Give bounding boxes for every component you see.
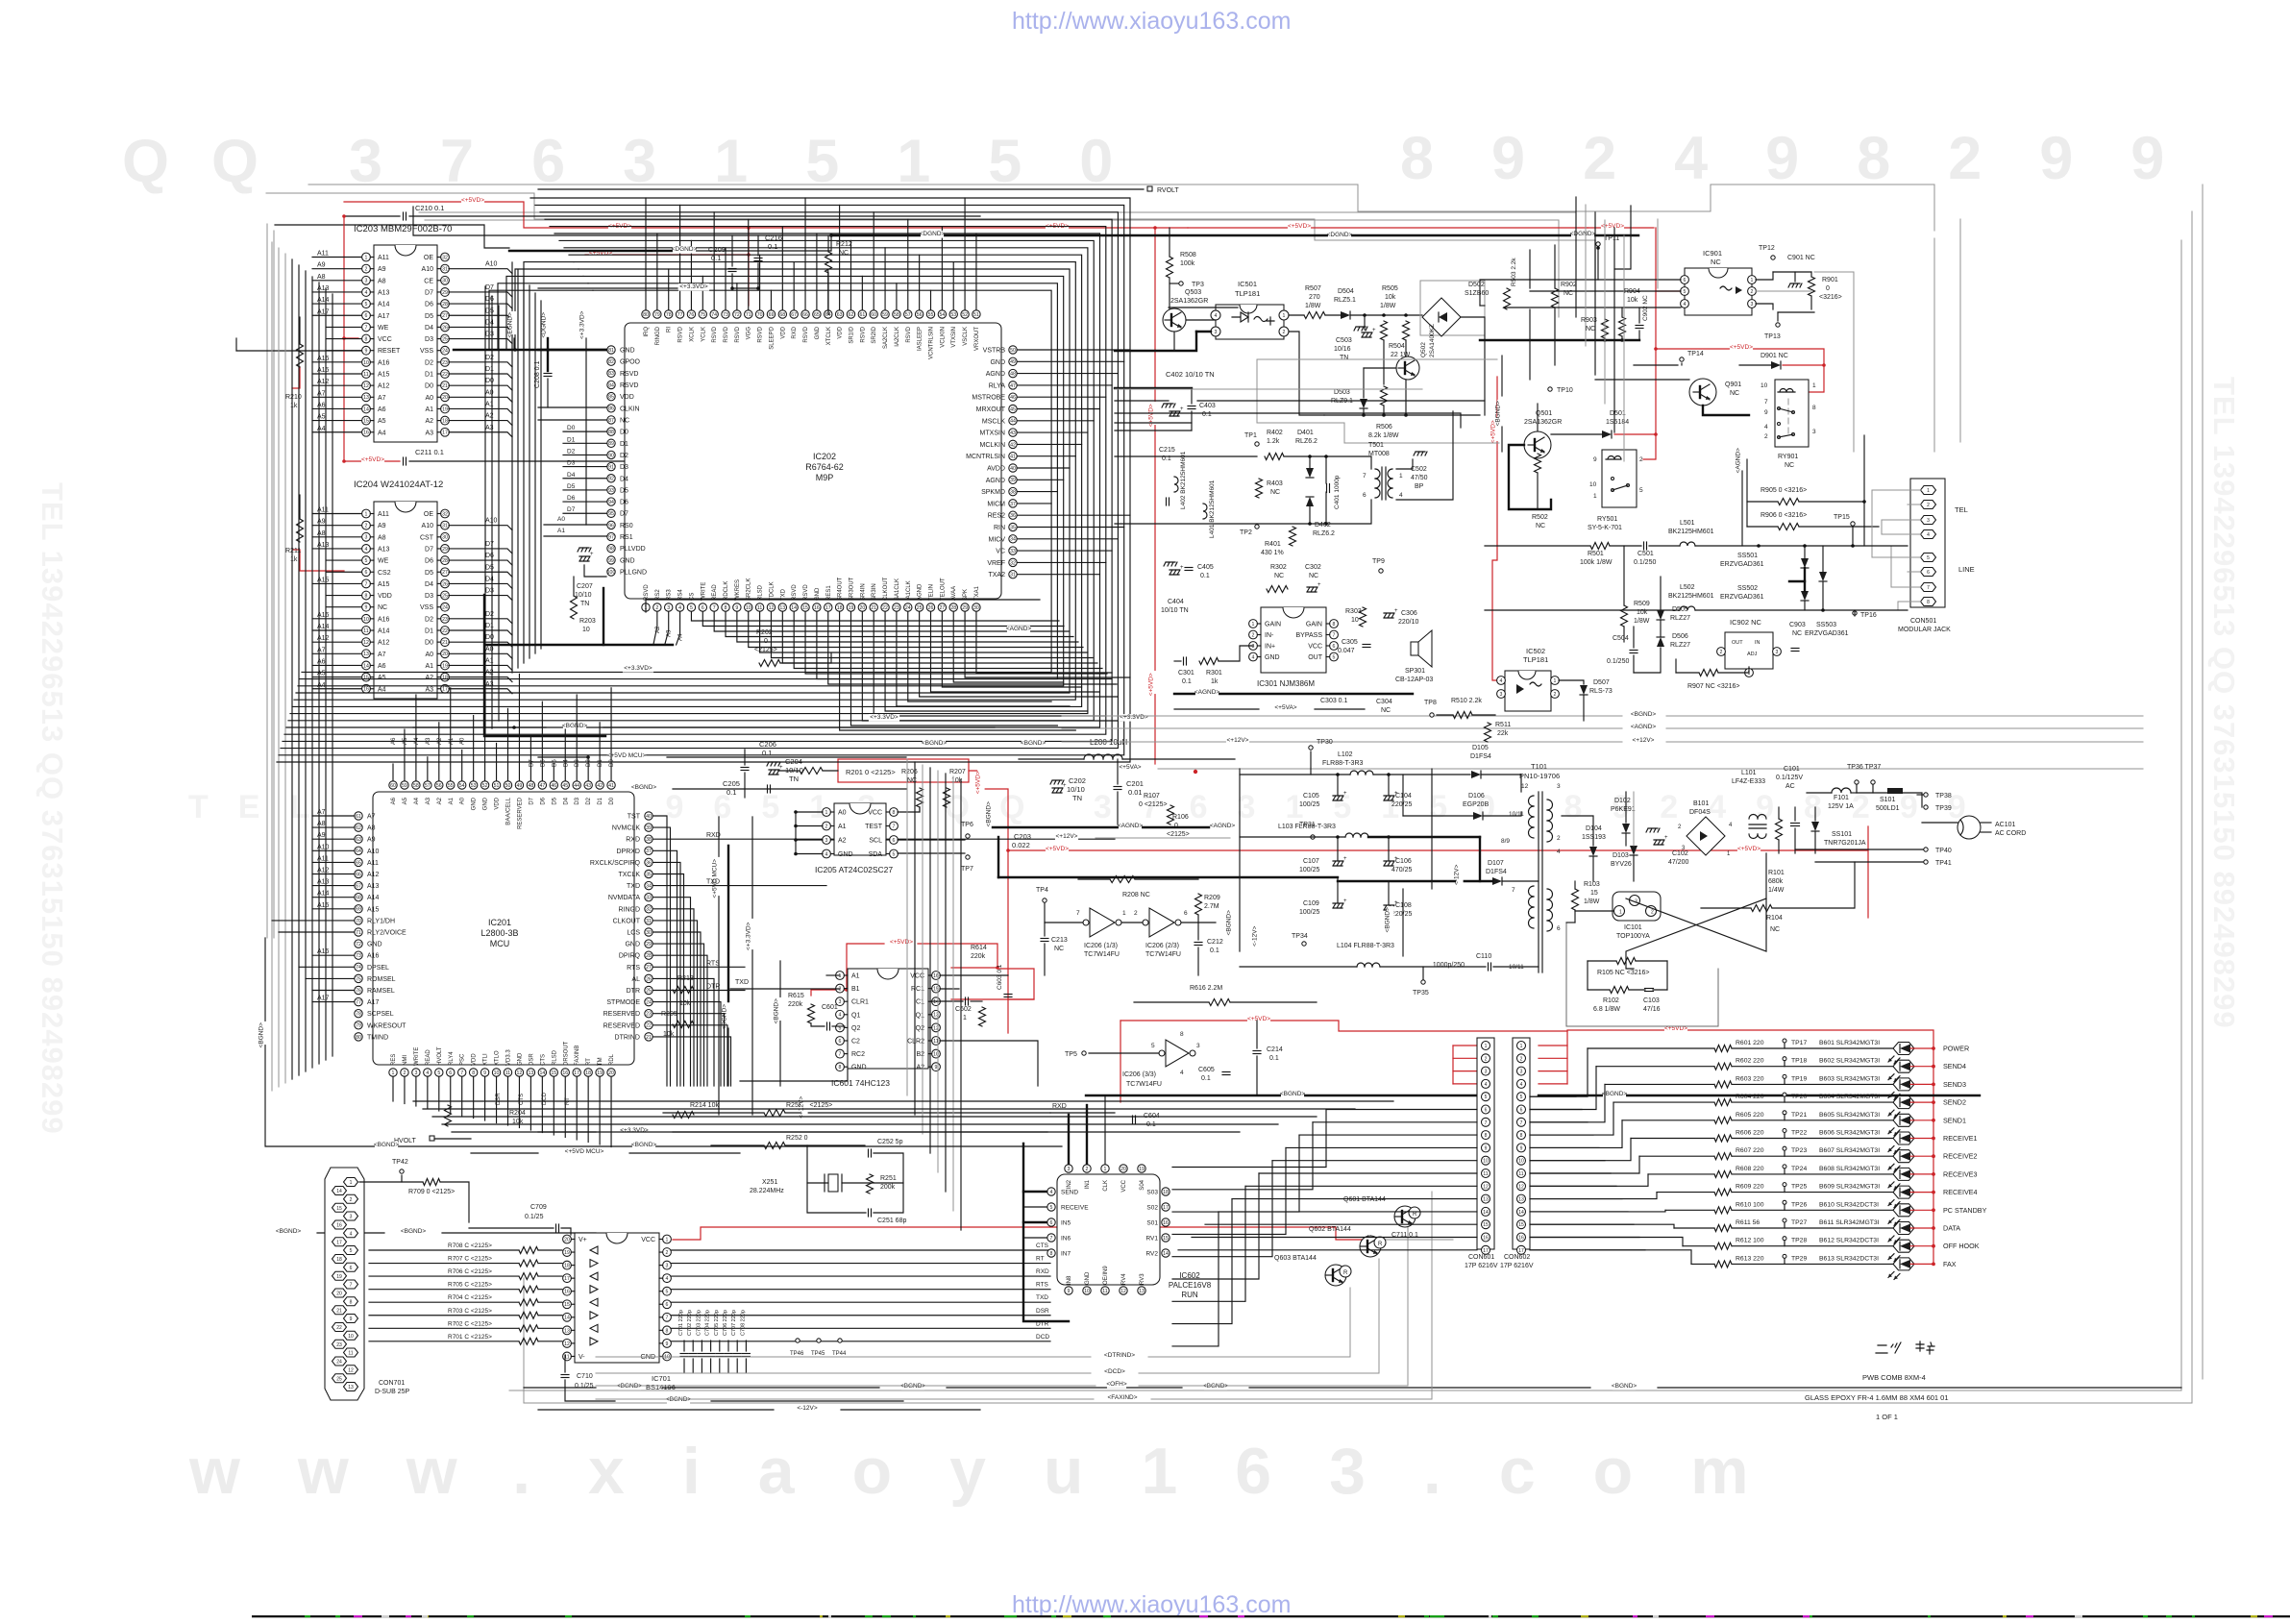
svg-text:C504: C504 (1613, 635, 1629, 642)
transistor Q501 2SA1362GR (1524, 431, 1551, 458)
svg-text:SPK: SPK (963, 589, 969, 601)
svg-text:RLZ27: RLZ27 (1670, 642, 1690, 649)
svg-text:C304: C304 (1376, 699, 1392, 705)
svg-text:9: 9 (666, 1341, 669, 1347)
svg-text:12: 12 (363, 640, 369, 646)
svg-text:21: 21 (336, 1308, 342, 1314)
svg-text:R614: R614 (971, 945, 987, 951)
svg-text:A16: A16 (378, 616, 390, 623)
svg-text:TP20: TP20 (1791, 1094, 1807, 1100)
svg-text:26: 26 (928, 605, 934, 611)
red net C211 +5VD (344, 216, 400, 461)
svg-text:10/16: 10/16 (1334, 346, 1351, 353)
svg-text:+: + (1664, 835, 1668, 841)
svg-text:Q602 BTA144: Q602 BTA144 (1309, 1226, 1351, 1233)
svg-text:2: 2 (1086, 1167, 1089, 1172)
resistor R214 10k (673, 1112, 694, 1119)
svg-text:1: 1 (839, 973, 842, 979)
svg-text:AGND: AGND (918, 583, 923, 601)
svg-text:<BGND>: <BGND> (986, 801, 993, 827)
svg-text:+: + (1372, 328, 1376, 333)
svg-text:D0: D0 (485, 634, 494, 641)
svg-text:A3: A3 (426, 797, 431, 804)
svg-text:TELIN: TELIN (929, 584, 935, 601)
svg-text:9: 9 (350, 1316, 353, 1322)
svg-text:C1: C1 (916, 999, 924, 1006)
svg-text:C402 10/10 TN: C402 10/10 TN (1166, 370, 1215, 379)
IC201 top pins 60-41 (389, 781, 397, 789)
svg-text:TN: TN (1072, 794, 1082, 802)
svg-text:30: 30 (442, 279, 448, 284)
svg-text:6: 6 (449, 1070, 452, 1076)
svg-text:20: 20 (442, 652, 448, 657)
svg-text:17P 6216V: 17P 6216V (1500, 1263, 1534, 1269)
svg-text:8: 8 (1050, 1251, 1053, 1257)
svg-text:10: 10 (582, 627, 590, 633)
thick bus y913 (998, 876, 1338, 878)
svg-text:10: 10 (363, 617, 369, 623)
svg-text:5: 5 (1485, 1095, 1488, 1100)
svg-text:125V 1A: 125V 1A (1828, 803, 1854, 810)
IC201 bottom pins 1-20 (389, 1069, 397, 1076)
svg-text:0: 0 (1174, 823, 1178, 829)
svg-text:TXA2: TXA2 (988, 572, 1005, 578)
svg-text:6: 6 (365, 570, 368, 576)
svg-text:IN+: IN+ (1265, 644, 1275, 651)
svg-text:R504: R504 (1389, 343, 1405, 350)
transistor Q603 BTA144 (1325, 1265, 1346, 1286)
svg-text:RUN: RUN (1181, 1291, 1198, 1299)
svg-text:23: 23 (336, 1342, 342, 1348)
svg-text:A1: A1 (557, 528, 565, 534)
svg-text:VD3.3: VD3.3 (506, 1049, 512, 1066)
capacitor C601 (826, 1022, 828, 1030)
svg-text:GLASS EPOXY FR-4 1.6MM 88: GLASS EPOXY FR-4 1.6MM 88 XM4 601 01 (1805, 1393, 1949, 1402)
svg-text:IC206 (3/3): IC206 (3/3) (1122, 1071, 1156, 1078)
svg-text:RECEIVE: RECEIVE (1061, 1205, 1089, 1212)
svg-text:R907 NC <3216>: R907 NC <3216> (1687, 683, 1739, 690)
svg-text:38: 38 (1010, 490, 1016, 496)
svg-text:<DGND>: <DGND> (541, 312, 548, 338)
svg-text:TLP181: TLP181 (1235, 289, 1260, 298)
svg-text:D5: D5 (567, 483, 576, 490)
svg-text:4: 4 (1557, 849, 1561, 855)
svg-text:9: 9 (1593, 456, 1597, 463)
svg-text:29: 29 (962, 605, 968, 611)
svg-text:R703 C <2125>: R703 C <2125> (448, 1308, 492, 1315)
svg-text:C503: C503 (1336, 337, 1352, 344)
svg-text:17: 17 (1163, 1205, 1169, 1211)
svg-text:R214 10k: R214 10k (690, 1102, 719, 1109)
svg-text:AVAA: AVAA (951, 586, 957, 601)
svg-text:TP24: TP24 (1791, 1166, 1807, 1172)
svg-text:HVOLT: HVOLT (437, 1046, 443, 1066)
svg-text:14: 14 (564, 1316, 570, 1321)
resistor R902 NC (1552, 288, 1559, 308)
svg-text:9: 9 (1485, 1145, 1488, 1151)
transistor Q601 BTA144 (1394, 1206, 1416, 1227)
svg-text:SR4OUT: SR4OUT (838, 577, 844, 601)
svg-text:2: 2 (1720, 650, 1723, 655)
svg-text:S01: S01 (1146, 1220, 1158, 1227)
svg-text:SY-5-K-701: SY-5-K-701 (1588, 525, 1622, 531)
svg-text:27: 27 (442, 313, 448, 319)
svg-text:2: 2 (404, 1070, 406, 1076)
svg-text:TC7W14FU: TC7W14FU (1126, 1081, 1162, 1088)
svg-text:70: 70 (757, 312, 763, 318)
svg-text:95: 95 (608, 511, 614, 517)
svg-text:4: 4 (1252, 654, 1255, 660)
svg-text:IRQ: IRQ (644, 327, 650, 337)
svg-text:2: 2 (1639, 456, 1643, 463)
svg-text:R505: R505 (1382, 285, 1398, 292)
svg-text:V+: V+ (579, 1237, 587, 1243)
testpoint TP34 (1302, 942, 1306, 946)
svg-text:52: 52 (482, 783, 488, 789)
svg-text:21: 21 (442, 640, 448, 646)
svg-text:14: 14 (336, 1189, 342, 1194)
svg-text:C252 5p: C252 5p (877, 1139, 903, 1145)
svg-text:86: 86 (608, 406, 614, 412)
svg-text:TEST: TEST (865, 824, 883, 830)
svg-text:<AGND>: <AGND> (1118, 823, 1144, 829)
svg-text:R511: R511 (1495, 722, 1511, 728)
svg-text:AC: AC (1785, 783, 1795, 790)
svg-text:SEND: SEND (1061, 1190, 1078, 1196)
svg-text:TP16: TP16 (1860, 612, 1877, 619)
net +5VD red mid (1188, 227, 1588, 229)
testpoint TP2 (1255, 525, 1259, 529)
svg-text:GND: GND (990, 359, 1005, 366)
svg-text:8: 8 (1812, 405, 1816, 411)
wires to CON501 (1485, 545, 1590, 547)
svg-text:77: 77 (677, 312, 683, 318)
svg-text:5: 5 (666, 1290, 669, 1295)
svg-text:A1: A1 (449, 737, 455, 745)
testpoint TP6 (966, 834, 970, 838)
svg-text:http://www.xiaoyu163.com: http://www.xiaoyu163.com (1012, 8, 1291, 35)
svg-text:67: 67 (356, 884, 361, 890)
svg-text:<BGND>: <BGND> (1612, 1383, 1637, 1390)
red long +5VD y885 to right (1008, 826, 1868, 850)
svg-text:D-SUB 25P: D-SUB 25P (375, 1389, 410, 1395)
svg-text:RXD: RXD (706, 832, 721, 839)
svg-text:<+3.3VD>: <+3.3VD> (1120, 714, 1148, 721)
inverter IC206 2/3 (1149, 908, 1174, 937)
svg-text:DPSEL: DPSEL (367, 965, 389, 972)
svg-text:41: 41 (608, 783, 614, 789)
svg-text:6: 6 (350, 1266, 353, 1271)
svg-text:4: 4 (1500, 678, 1503, 684)
svg-text:1: 1 (666, 1237, 669, 1243)
svg-text:RXCLK/SCPIRQ: RXCLK/SCPIRQ (590, 860, 641, 867)
svg-text:NC: NC (1270, 489, 1280, 496)
svg-text:66: 66 (802, 312, 808, 318)
svg-text:+: + (1343, 856, 1347, 862)
testpoint TP9 (1379, 569, 1383, 573)
svg-text:14: 14 (1163, 1251, 1169, 1257)
svg-text:75: 75 (700, 312, 705, 318)
svg-text:IC206 (2/3): IC206 (2/3) (1145, 943, 1179, 949)
svg-text:SS501: SS501 (1737, 553, 1758, 559)
svg-text:R201 0 <2125>: R201 0 <2125> (846, 768, 896, 776)
svg-text:A2: A2 (655, 626, 661, 633)
optocoupler IC502 TLP181 (1505, 671, 1551, 711)
svg-text:BYV26: BYV26 (1611, 861, 1632, 868)
svg-text:MCU: MCU (490, 939, 510, 948)
wires right interface (1598, 248, 1681, 280)
svg-text:81: 81 (608, 348, 614, 354)
svg-text:15: 15 (551, 1070, 556, 1076)
speaker SP301 CB-12AP-03 (1411, 642, 1418, 655)
svg-text:TP38: TP38 (1935, 793, 1952, 800)
title block japanese stamp (1876, 1342, 1901, 1353)
testpoint TP3 (1179, 282, 1183, 285)
svg-text:C2: C2 (851, 1039, 860, 1046)
svg-text:RLY4: RLY4 (449, 1051, 455, 1066)
svg-text:D2: D2 (425, 359, 433, 366)
svg-text:MODULAR JACK: MODULAR JACK (1898, 627, 1951, 633)
svg-text:OUT: OUT (1308, 654, 1323, 661)
svg-text:19: 19 (442, 663, 448, 669)
svg-text:C102: C102 (1672, 850, 1688, 857)
svg-text:IC501: IC501 (1238, 280, 1257, 288)
resistor R903 NC (1602, 319, 1609, 338)
svg-text:6: 6 (1485, 1108, 1488, 1114)
svg-text:RY901: RY901 (1778, 454, 1798, 460)
svg-text:A10: A10 (422, 523, 434, 529)
svg-text:A3: A3 (667, 629, 673, 637)
svg-text:D102: D102 (1614, 798, 1631, 804)
svg-text:D4: D4 (620, 476, 628, 482)
svg-text:RS2: RS2 (655, 589, 661, 601)
svg-text:39: 39 (646, 825, 652, 831)
svg-text:A0: A0 (460, 797, 466, 804)
svg-text:RSVD: RSVD (644, 584, 650, 601)
svg-text:A0: A0 (425, 652, 433, 658)
svg-text:GAIN: GAIN (1265, 622, 1281, 628)
svg-text:R606 220: R606 220 (1736, 1130, 1764, 1137)
svg-text:49: 49 (1010, 359, 1016, 365)
svg-text:35: 35 (1010, 525, 1016, 530)
svg-text:10: 10 (746, 605, 751, 611)
svg-text:R704 C <2125>: R704 C <2125> (448, 1294, 492, 1301)
IC201 L2800-3B MCU (373, 792, 634, 1065)
IC602 top wires (1068, 1115, 1070, 1164)
bus top lines left tails (524, 262, 574, 350)
svg-text:TP3: TP3 (1192, 282, 1204, 288)
svg-text:46: 46 (551, 783, 556, 789)
svg-text:R906 0 <3216>: R906 0 <3216> (1761, 512, 1807, 519)
svg-text:R207: R207 (949, 769, 966, 775)
svg-text:D0: D0 (609, 759, 615, 767)
svg-text:RLZ5.1: RLZ5.1 (1334, 297, 1356, 304)
net DGND label x1394 (1328, 232, 1351, 238)
svg-text:15: 15 (1518, 1222, 1524, 1228)
svg-text:8: 8 (1180, 1031, 1184, 1038)
svg-text:A12: A12 (378, 383, 390, 390)
svg-text:AL: AL (631, 976, 640, 983)
svg-text:17: 17 (442, 431, 448, 436)
relay RY501 SY-5-K-701 (1602, 450, 1637, 507)
testpoints TP46 TP45 TP44 (796, 1339, 800, 1342)
svg-text:A6: A6 (378, 406, 386, 413)
svg-text:72: 72 (356, 942, 361, 947)
svg-text:10: 10 (363, 360, 369, 366)
svg-text:NC: NC (378, 604, 387, 611)
svg-text:470/25: 470/25 (1391, 867, 1413, 874)
svg-text:15: 15 (363, 419, 369, 425)
svg-text:DSR: DSR (529, 1053, 534, 1066)
svg-text:IC202: IC202 (813, 452, 836, 461)
svg-text:TST: TST (628, 814, 641, 821)
resistor R507 270 1/8W (1304, 312, 1325, 319)
svg-text:1000p/250: 1000p/250 (1433, 962, 1465, 969)
svg-text:SR4IN: SR4IN (860, 583, 866, 601)
svg-text:6: 6 (702, 605, 704, 611)
svg-text:WE: WE (378, 325, 389, 332)
svg-text:TP10: TP10 (1557, 387, 1573, 394)
svg-text:12: 12 (1483, 1184, 1489, 1190)
svg-text:8: 8 (839, 1065, 842, 1070)
svg-text:<+3.3VD>: <+3.3VD> (620, 1127, 649, 1134)
red vertical right x1944 (1867, 850, 1869, 918)
red net R210 reset (292, 367, 300, 388)
resistor R403 NC (1256, 479, 1263, 498)
IC205 left wires (796, 811, 823, 813)
svg-text:IN2: IN2 (1067, 1179, 1072, 1189)
capacitor C211 0.1 (403, 457, 405, 465)
svg-text:RES2: RES2 (988, 513, 1005, 520)
svg-text:<2125>: <2125> (1167, 831, 1190, 838)
svg-text:25: 25 (646, 988, 652, 994)
svg-text:0 <2125>: 0 <2125> (1139, 801, 1168, 808)
svg-text:<+5VD>: <+5VD> (890, 939, 913, 946)
svg-text:RS3: RS3 (667, 589, 673, 601)
svg-text:18: 18 (837, 605, 843, 611)
IC203 right stub wires and labels (449, 269, 512, 274)
svg-text:2: 2 (1557, 835, 1561, 842)
svg-text:ERZVGAD361: ERZVGAD361 (1720, 561, 1764, 568)
resistor R602 and LED B602 row SEND4 (1596, 1066, 1714, 1068)
optocoupler IC901 NC (1685, 268, 1752, 315)
svg-text:R209: R209 (1204, 895, 1220, 901)
svg-text:WE: WE (378, 558, 389, 565)
svg-text:IC206 (1/3): IC206 (1/3) (1084, 943, 1118, 949)
resistor R213 10k (673, 987, 694, 994)
svg-text:45: 45 (562, 783, 568, 789)
svg-text:A8: A8 (378, 534, 386, 541)
resistor R901 0 <3216> (1809, 277, 1815, 296)
svg-text:7: 7 (666, 1316, 669, 1321)
svg-text:6: 6 (1184, 910, 1188, 917)
svg-text:A1: A1 (851, 973, 860, 980)
svg-text:A17: A17 (317, 996, 330, 1002)
resistor R604 and LED B604 row SEND2 (1613, 1101, 1714, 1103)
svg-text:R205: R205 (661, 1011, 677, 1018)
svg-text:97: 97 (608, 534, 614, 540)
svg-text:1k: 1k (290, 556, 298, 563)
svg-text:<+12V>: <+12V> (799, 1096, 805, 1119)
svg-text:+: + (1180, 406, 1184, 412)
svg-text:51: 51 (494, 783, 500, 789)
svg-text:27: 27 (442, 570, 448, 576)
svg-text:4: 4 (678, 605, 681, 611)
IC202 top pin wires going up to bundle (645, 198, 647, 309)
svg-text:R: R (1378, 1242, 1383, 1247)
IC202 left side D-bus stubs (563, 431, 606, 432)
svg-text:<OFH>: <OFH> (1106, 1381, 1127, 1388)
svg-text:15: 15 (564, 1302, 570, 1308)
resistor R508 100k (1167, 257, 1173, 278)
wire VSS thick (454, 349, 606, 351)
svg-text:GND: GND (625, 942, 640, 948)
svg-text:SR3IN: SR3IN (872, 583, 877, 601)
svg-text:<+5VD>: <+5VD> (1046, 846, 1069, 852)
svg-text:TP36 TP37: TP36 TP37 (1847, 764, 1881, 771)
svg-text:1/8W: 1/8W (1380, 303, 1396, 309)
svg-text:TP26: TP26 (1791, 1201, 1807, 1208)
svg-text:R: R (1343, 1270, 1348, 1276)
capacitor C204 10/10 TN (767, 762, 780, 766)
svg-text:VCC: VCC (1308, 644, 1322, 651)
capacitor C711 0.1 red net (1367, 1236, 1369, 1243)
svg-text:73: 73 (356, 953, 361, 959)
svg-text:RT: RT (586, 1058, 592, 1066)
svg-text:TP28: TP28 (1791, 1238, 1807, 1244)
svg-text:3: 3 (1557, 783, 1561, 790)
svg-text:+: + (1343, 898, 1347, 904)
svg-text:90: 90 (608, 453, 614, 458)
svg-text:C303 0.1: C303 0.1 (1320, 698, 1348, 704)
capacitor C602 1 (965, 997, 967, 1005)
svg-text:100k: 100k (1180, 260, 1195, 267)
svg-text:R705 C <2125>: R705 C <2125> (448, 1282, 492, 1289)
IC202 left pins 81-100 (607, 346, 615, 354)
svg-text:A5: A5 (317, 671, 326, 677)
svg-text:SS101: SS101 (1832, 831, 1852, 838)
svg-text:RINGD: RINGD (655, 326, 661, 345)
svg-text:+: + (1394, 608, 1398, 614)
svg-text:C107: C107 (1303, 858, 1319, 865)
svg-text:D4: D4 (563, 797, 569, 804)
svg-text:33: 33 (1010, 549, 1016, 554)
frame right vertical gray (509, 240, 2181, 1390)
svg-text:C306: C306 (1401, 610, 1417, 617)
net +12V stub (1055, 833, 1078, 840)
svg-text:7: 7 (839, 1052, 842, 1058)
svg-text:BAA/CELL: BAA/CELL (506, 797, 512, 824)
svg-text:C216: C216 (765, 234, 782, 242)
svg-text:CLR2: CLR2 (907, 1039, 924, 1046)
capacitors C701-C708 (680, 1353, 688, 1355)
svg-text:R501: R501 (1588, 551, 1604, 557)
svg-text:A11: A11 (367, 860, 379, 867)
svg-text:RLYA: RLYA (989, 382, 1006, 389)
resistor R611 and LED B611 row DATA (1674, 1227, 1714, 1229)
svg-text:GAIN: GAIN (1306, 622, 1322, 628)
svg-text:1: 1 (1283, 313, 1286, 319)
svg-text:BK2125HM601: BK2125HM601 (1668, 593, 1714, 600)
svg-text:D5: D5 (485, 564, 494, 571)
svg-text:R105 NC <3216>: R105 NC <3216> (1597, 970, 1649, 976)
svg-text:56: 56 (917, 312, 923, 318)
svg-text:R251: R251 (880, 1175, 897, 1182)
svg-text:1/4W: 1/4W (1768, 887, 1785, 894)
svg-text:24: 24 (646, 1000, 652, 1006)
svg-text:37: 37 (646, 849, 652, 854)
svg-text:A13: A13 (378, 546, 390, 553)
